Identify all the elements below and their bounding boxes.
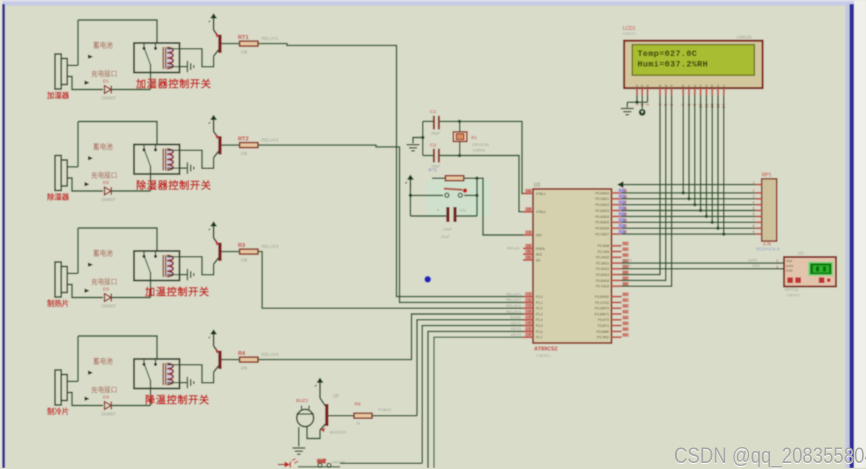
wire reset left vertical xyxy=(409,189,411,216)
relay RL2 switch xyxy=(143,145,158,192)
wire emitter to buzzer xyxy=(307,427,320,439)
svg-text:RELAY2: RELAY2 xyxy=(262,138,279,143)
wire speaker bottom block 2 xyxy=(67,178,103,191)
svg-text:+: + xyxy=(437,208,440,214)
wire P0.5 to RP1 xyxy=(622,221,756,223)
DHT11 screen xyxy=(808,262,833,276)
svg-text:P0.1/AD1: P0.1/AD1 xyxy=(595,197,609,201)
svg-text:P1.4: P1.4 xyxy=(536,318,543,322)
diode D1 xyxy=(105,86,112,94)
power terminal buzzer xyxy=(315,378,323,393)
svg-text:P0.6/AD6: P0.6/AD6 xyxy=(595,227,609,231)
svg-text:17: 17 xyxy=(623,333,627,337)
svg-text:VDD: VDD xyxy=(786,259,793,263)
svg-text:Humi=037.2%RH: Humi=037.2%RH xyxy=(638,59,709,69)
wire VDD down xyxy=(641,95,643,108)
reset area selection tint xyxy=(427,180,490,217)
polarity mark block 2 xyxy=(88,156,93,160)
power terminal block 2 xyxy=(209,115,217,132)
svg-text:D0: D0 xyxy=(681,84,685,88)
wire RELAY2 to P1.1 xyxy=(258,145,524,302)
svg-text:P2.7/A15: P2.7/A15 xyxy=(596,285,609,289)
svg-text:P1.0: P1.0 xyxy=(536,295,543,299)
svg-text:制热片: 制热片 xyxy=(47,299,69,308)
svg-text:21: 21 xyxy=(623,242,627,246)
svg-text:KEY2: KEY2 xyxy=(511,326,522,331)
wire base block 4 xyxy=(222,359,240,361)
svg-text:P0.4/AD4: P0.4/AD4 xyxy=(595,215,609,219)
svg-text:P2.1/A9: P2.1/A9 xyxy=(598,250,610,254)
wire C2 rail xyxy=(423,155,433,157)
svg-text:DHT11: DHT11 xyxy=(785,287,799,292)
node D6 junction xyxy=(716,227,719,230)
svg-text:充电接口: 充电接口 xyxy=(91,385,117,394)
pin 12 P3.2/INT0 xyxy=(595,304,629,311)
wire XTAL1 top rail xyxy=(423,120,433,122)
svg-text:10k: 10k xyxy=(241,49,249,54)
pin 35 P0.4/AD4 xyxy=(595,212,627,219)
svg-text:P0.7/AD7: P0.7/AD7 xyxy=(595,233,609,237)
wire LCD D4 down xyxy=(705,95,707,216)
wire speaker bottom block 4 xyxy=(67,393,103,406)
svg-text:P2.6/A14: P2.6/A14 xyxy=(596,279,609,283)
svg-text:P1.6: P1.6 xyxy=(536,330,543,334)
RP1 pin 8 xyxy=(753,224,762,228)
LCD pin stub 12 xyxy=(711,88,713,95)
wire crystal bottom to XTAL2 xyxy=(440,156,524,212)
pin 31 EA xyxy=(523,255,541,262)
window frame right blue line xyxy=(850,4,855,468)
wire buzzer to ground xyxy=(298,427,300,447)
transistor Q2 xyxy=(214,132,222,158)
svg-text:RELAY4: RELAY4 xyxy=(506,309,522,314)
svg-text:31: 31 xyxy=(527,255,531,259)
svg-text:14: 14 xyxy=(623,316,627,320)
window frame right lavender xyxy=(846,4,850,468)
svg-text:9: 9 xyxy=(529,230,531,234)
button RESET xyxy=(444,188,467,197)
svg-text:3: 3 xyxy=(529,304,531,308)
svg-text:BUZZ: BUZZ xyxy=(511,315,522,320)
wire coil-collector loop block 3 xyxy=(180,257,214,275)
svg-text:4: 4 xyxy=(753,201,755,205)
svg-text:P2.3/A11: P2.3/A11 xyxy=(596,262,609,266)
svg-text:P1BUZ: P1BUZ xyxy=(379,407,392,412)
resistor R5 xyxy=(354,413,372,418)
svg-text:ALE: ALE xyxy=(536,253,542,257)
relay RL4 box xyxy=(134,359,180,389)
svg-text:蓄电池: 蓄电池 xyxy=(93,357,113,366)
resistor R1 xyxy=(445,176,463,181)
svg-text:P1.5: P1.5 xyxy=(536,324,543,328)
svg-text:DATA: DATA xyxy=(623,258,633,262)
power terminal block 4 xyxy=(209,329,217,346)
pin 32 P0.7/AD7 xyxy=(595,230,627,237)
LCD1 body xyxy=(624,41,763,88)
resistor RT1 xyxy=(240,41,258,46)
svg-text:<TEXT>: <TEXT> xyxy=(536,353,552,358)
relay RL4 coil xyxy=(163,363,179,385)
svg-text:加温控制开关: 加温控制开关 xyxy=(144,286,210,299)
polarity mark2 block 4 xyxy=(85,397,90,401)
pin 13 P3.3/INT1 xyxy=(595,310,629,317)
pin 34 P0.5/AD5 xyxy=(595,218,627,225)
wire VSS down xyxy=(636,95,638,102)
wire key1 to P1.5 xyxy=(422,326,524,464)
svg-text:15: 15 xyxy=(623,322,627,326)
svg-text:降温控制开关: 降温控制开关 xyxy=(145,394,210,407)
node D0 junction xyxy=(682,191,685,194)
pin 26 P2.5/A13 xyxy=(596,270,629,277)
wire LCD D6 down xyxy=(717,95,719,228)
svg-text:RELAY4: RELAY4 xyxy=(262,352,279,357)
svg-text:加湿器: 加湿器 xyxy=(46,91,70,100)
transistor Q4 xyxy=(214,346,222,372)
wire speaker top block 4 xyxy=(67,380,78,382)
wire RELAY4 to P1.3 xyxy=(258,314,524,360)
svg-text:D1: D1 xyxy=(103,79,109,84)
svg-text:1k: 1k xyxy=(356,421,360,426)
pin 36 P0.3/AD3 xyxy=(595,206,627,213)
svg-text:P1.2: P1.2 xyxy=(536,307,543,311)
svg-text:16: 16 xyxy=(623,327,627,331)
svg-text:D5: D5 xyxy=(710,84,714,88)
svg-text:LM016L: LM016L xyxy=(737,35,753,40)
capacitor C2 xyxy=(434,149,439,163)
wire speaker bottom block 3 xyxy=(67,285,103,298)
wire P2.3 to DHT11 DATA xyxy=(622,262,785,264)
svg-text:蓄电池: 蓄电池 xyxy=(93,41,113,50)
speaker LS4 (制冷片) xyxy=(55,370,67,405)
wire P0.0 to RP1 xyxy=(622,192,756,194)
window frame top band xyxy=(0,0,866,6)
svg-text:1N4007: 1N4007 xyxy=(101,197,116,202)
node D7 junction xyxy=(722,233,725,236)
svg-text:D2: D2 xyxy=(103,180,109,185)
node ground tap xyxy=(421,136,424,139)
svg-text:AT89C52: AT89C52 xyxy=(534,347,558,353)
svg-text:P0.2/AD2: P0.2/AD2 xyxy=(595,203,609,207)
wire led row xyxy=(278,464,285,466)
ground buzzer xyxy=(292,448,305,454)
RP1 pin 2 xyxy=(753,189,762,193)
pin 17 P3.7/RD xyxy=(597,333,629,340)
wire speaker bottom block 1 xyxy=(67,77,103,90)
wire loop left block 3 xyxy=(77,228,79,273)
wire diode to switch block 4 xyxy=(112,405,151,407)
pin 18 XTAL2 xyxy=(523,207,546,214)
diode D2 xyxy=(105,187,112,195)
pin 33 P0.6/AD6 xyxy=(595,224,627,231)
svg-text:RELAY3: RELAY3 xyxy=(262,244,279,249)
RP1 pin 5 xyxy=(753,206,762,210)
svg-text:RT1: RT1 xyxy=(238,35,249,41)
wire LCD E to P2.7 xyxy=(622,95,672,286)
svg-text:6: 6 xyxy=(529,321,531,325)
svg-text:P3.7/RD: P3.7/RD xyxy=(597,336,610,340)
relay RL3 coil xyxy=(163,255,179,277)
svg-text:10uF: 10uF xyxy=(443,227,453,232)
polarity mark2 block 1 xyxy=(85,81,90,85)
transistor Q3 xyxy=(214,238,222,264)
svg-text:P2.0/A8: P2.0/A8 xyxy=(598,244,610,248)
wire R1 to node xyxy=(464,177,477,179)
pin 1 P1.0 xyxy=(523,292,543,299)
wire LCD D7 down xyxy=(723,95,725,234)
polarity mark block 4 xyxy=(88,371,93,375)
svg-text:RELAY3: RELAY3 xyxy=(506,303,522,308)
svg-text:<TEXT>: <TEXT> xyxy=(622,32,637,36)
LCD pin stub 6 xyxy=(671,88,673,95)
wire base block 3 xyxy=(222,251,240,253)
ground relay block 3 xyxy=(187,269,193,280)
svg-text:P0.3/AD3: P0.3/AD3 xyxy=(595,209,609,213)
svg-text:D1: D1 xyxy=(687,84,691,88)
svg-text:7: 7 xyxy=(529,327,531,331)
node crystal top xyxy=(458,120,461,123)
svg-text:13: 13 xyxy=(623,310,627,314)
svg-text:19: 19 xyxy=(527,189,531,193)
svg-text:P2.4/A12: P2.4/A12 xyxy=(596,267,609,271)
ground relay block 2 xyxy=(187,162,193,173)
wire P0.1 to RP1 xyxy=(622,198,756,200)
svg-text:X1: X1 xyxy=(471,135,477,141)
svg-text:9: 9 xyxy=(753,230,755,234)
svg-text:P1.1: P1.1 xyxy=(536,301,543,305)
svg-text:R3: R3 xyxy=(238,243,245,249)
polarity mark2 block 2 xyxy=(85,182,90,186)
wire loop top block 4 xyxy=(78,336,157,360)
power terminal RP1 common xyxy=(617,181,755,188)
window frame left blue line xyxy=(2,4,5,468)
svg-text:1N4007: 1N4007 xyxy=(101,304,116,309)
ground crystal xyxy=(407,145,420,151)
svg-text:KEY3: KEY3 xyxy=(511,332,522,337)
svg-text:1: 1 xyxy=(529,292,531,296)
LCD pin stub 10 xyxy=(700,88,702,95)
node selection marker xyxy=(424,276,431,283)
RP1 pin 9 xyxy=(753,230,762,234)
polarity mark2 block 3 xyxy=(85,289,90,293)
LCD pin stub 9 xyxy=(694,88,696,95)
wire RELAY1 to P1.0 xyxy=(258,44,524,297)
wire to crystal ground xyxy=(413,138,423,144)
svg-text:23: 23 xyxy=(623,253,627,257)
svg-text:RELAY2: RELAY2 xyxy=(506,297,522,302)
pin 10 P3.0/RXD xyxy=(595,292,629,299)
ground LCD xyxy=(621,109,634,115)
svg-text:RELAY: RELAY xyxy=(507,246,520,251)
svg-text:RT2: RT2 xyxy=(238,136,249,142)
pin 19 XTAL1 xyxy=(523,189,546,196)
DHT11 button4 xyxy=(827,278,830,281)
relay RL2 box xyxy=(134,145,180,175)
speaker LS1 (加湿器) xyxy=(55,54,67,89)
svg-text:P3.4/T0: P3.4/T0 xyxy=(598,318,609,322)
wire key3 to P1.7 xyxy=(434,337,524,468)
wire diode to switch block 2 xyxy=(112,190,151,192)
svg-text:P2.2/A10: P2.2/A10 xyxy=(596,256,609,260)
pin 11 P3.1/TXD xyxy=(595,298,629,305)
RP1 pin 1 xyxy=(753,180,762,184)
svg-text:2: 2 xyxy=(776,259,778,263)
wire reset top rail xyxy=(432,177,445,179)
svg-text:LCD1: LCD1 xyxy=(623,26,636,32)
wire LCD RS to P2.5 xyxy=(622,95,661,274)
pin 29 PSEN xyxy=(523,244,545,251)
node crystal bottom xyxy=(458,154,461,157)
wire bottom rail xyxy=(298,466,340,468)
wire loop top block 2 xyxy=(78,122,157,146)
ground relay block 4 xyxy=(187,377,193,388)
pin 15 P3.5/T1 xyxy=(598,321,629,328)
wire VSS-VEE rail xyxy=(627,101,647,103)
LCD1 screen xyxy=(632,45,754,76)
RP1 pin 3 xyxy=(753,195,762,199)
svg-text:CRYSTAL: CRYSTAL xyxy=(472,142,491,147)
speaker LS2 (除湿器) xyxy=(55,156,67,191)
power terminal block 1 xyxy=(209,13,217,30)
wire P0.6 to RP1 xyxy=(622,227,756,229)
svg-text:蓄电池: 蓄电池 xyxy=(93,249,113,258)
svg-text:Temp=027.0C: Temp=027.0C xyxy=(638,49,698,59)
wire base block 2 xyxy=(222,144,240,146)
svg-text:1N4007: 1N4007 xyxy=(101,412,116,417)
pin 23 P2.2/A10 xyxy=(596,253,629,260)
wire base block 1 xyxy=(222,43,240,45)
node D3 junction xyxy=(699,209,702,212)
polarity mark block 1 xyxy=(88,55,93,59)
transistor Q1 xyxy=(214,30,222,56)
svg-text:6: 6 xyxy=(753,212,755,216)
wire coil-collector loop block 4 xyxy=(180,365,214,383)
svg-text:P3.6/WR: P3.6/WR xyxy=(596,330,609,334)
node reset mid left xyxy=(409,194,412,197)
node D5 junction xyxy=(711,221,714,224)
relay RL3 switch xyxy=(143,251,158,298)
RP1 pin 4 xyxy=(753,201,762,205)
wire key2 to P1.6 xyxy=(428,331,524,468)
wire buzzer to P1.4 xyxy=(417,320,524,416)
node D4 junction xyxy=(705,215,708,218)
svg-text:D2: D2 xyxy=(693,84,697,88)
svg-text:除湿器: 除湿器 xyxy=(47,193,70,202)
wire coil to ground block 2 xyxy=(180,167,187,169)
wire LCD D1 down xyxy=(688,95,690,199)
pin 5 P1.4 xyxy=(523,315,543,322)
crystal X1 xyxy=(453,121,467,155)
pin 25 P2.4/A12 xyxy=(596,265,629,272)
svg-text:C2: C2 xyxy=(430,143,436,149)
svg-text:12MHz: 12MHz xyxy=(473,148,486,153)
svg-text:XTAL2: XTAL2 xyxy=(536,210,546,214)
svg-text:PSEN: PSEN xyxy=(536,247,545,251)
svg-text:XTAL1: XTAL1 xyxy=(536,192,546,196)
wire LCD D3 down xyxy=(700,95,702,210)
node reset mid right xyxy=(475,194,478,197)
svg-text:<TEXT>: <TEXT> xyxy=(786,294,801,298)
resistor R3 xyxy=(240,249,258,254)
wire coil to ground block 1 xyxy=(180,66,187,68)
pin 6 P1.5 xyxy=(523,321,543,328)
svg-text:R5: R5 xyxy=(355,402,361,408)
svg-text:除湿器控制开关: 除湿器控制开关 xyxy=(136,179,212,192)
svg-text:GND: GND xyxy=(623,264,631,268)
svg-text:10k: 10k xyxy=(241,365,249,370)
svg-text:RST: RST xyxy=(536,233,542,237)
wire coil-collector loop block 1 xyxy=(180,49,214,67)
LCD pin stub 7 xyxy=(682,88,684,95)
wire reset mid rail right xyxy=(464,194,477,196)
pin 4 P1.3 xyxy=(523,309,543,316)
wire LCD RW to P2.6 xyxy=(622,95,666,280)
svg-text:充电接口: 充电接口 xyxy=(91,69,117,78)
wire diode to switch block 1 xyxy=(112,89,151,91)
svg-text:22: 22 xyxy=(623,248,627,252)
svg-text:U1: U1 xyxy=(534,183,541,189)
DHT11 button1 xyxy=(787,277,793,283)
pin 21 P2.0/A8 xyxy=(598,242,629,249)
LCD pin stub 14 xyxy=(723,88,725,95)
RP1 pin 7 xyxy=(753,218,762,222)
wire speaker top block 1 xyxy=(67,64,78,66)
LCD pin stub 4 xyxy=(659,88,661,95)
pin 38 P0.1/AD1 xyxy=(595,194,627,201)
node D2 junction xyxy=(693,203,696,206)
LCD pin stub 5 xyxy=(665,88,667,95)
pin 28 P2.7/A15 xyxy=(596,282,629,289)
svg-text:5: 5 xyxy=(529,315,531,319)
svg-text:5: 5 xyxy=(753,206,755,210)
DHT11 button3 xyxy=(819,277,825,283)
svg-text:P3.0/RXD: P3.0/RXD xyxy=(595,295,610,299)
pin 2 P1.1 xyxy=(523,298,543,305)
relay RL1 box xyxy=(134,43,180,73)
pin 22 P2.1/A9 xyxy=(598,247,629,254)
svg-text:P2.5/A13: P2.5/A13 xyxy=(596,273,609,277)
resistor R4 xyxy=(240,357,258,362)
node reset top xyxy=(475,177,478,180)
wire P0.7 to RP1 xyxy=(622,233,756,235)
wire VEE down xyxy=(647,95,649,102)
svg-text:10: 10 xyxy=(623,293,627,297)
svg-text:RS: RS xyxy=(658,85,662,89)
svg-text:GND: GND xyxy=(752,264,760,268)
svg-text:D3: D3 xyxy=(699,84,703,88)
power terminal block 3 xyxy=(209,221,217,238)
svg-text:DATA: DATA xyxy=(748,258,758,262)
relay RL2 coil xyxy=(163,149,179,171)
svg-text:3: 3 xyxy=(753,195,755,199)
svg-text:D4: D4 xyxy=(704,84,708,88)
svg-text:D4: D4 xyxy=(103,395,109,400)
svg-text:1: 1 xyxy=(753,180,755,184)
button KEY1 xyxy=(317,460,331,468)
polarity mark block 3 xyxy=(88,263,93,267)
resistor pack RP1 body xyxy=(762,179,777,241)
pin 24 P2.3/A11 xyxy=(596,259,629,266)
svg-text:P1.7: P1.7 xyxy=(536,336,543,340)
diode D4 xyxy=(105,402,112,410)
svg-text:D7: D7 xyxy=(722,84,726,88)
resistor RT2 xyxy=(240,143,258,148)
wire base to R5 xyxy=(328,415,354,417)
window frame left light xyxy=(0,0,2,468)
svg-text:DATA: DATA xyxy=(786,264,794,268)
pin 27 P2.6/A14 xyxy=(596,276,629,283)
svg-text:D6: D6 xyxy=(716,84,720,88)
svg-text:10k: 10k xyxy=(241,257,249,262)
